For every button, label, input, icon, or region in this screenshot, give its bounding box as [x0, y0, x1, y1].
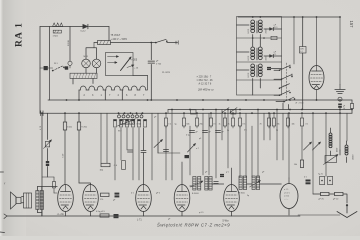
IF shield box — [237, 17, 282, 96]
IF box partition mid — [237, 61, 282, 63]
tube V7 IF amp — [309, 66, 324, 90]
fuse resistor block — [98, 41, 111, 45]
wire secondary tap leads — [105, 90, 122, 100]
svg-text:o·d 14: o·d 14 — [284, 195, 289, 197]
oscillator coil 2 — [345, 145, 348, 155]
dark cap diode T1 — [270, 28, 273, 31]
svg-text:17k: 17k — [100, 199, 103, 201]
dial lamp 1 — [82, 59, 91, 68]
IF can 3 winding b — [243, 176, 246, 190]
capacitor plates mid2 — [141, 150, 146, 152]
svg-text:0·1μ: 0·1μ — [186, 135, 190, 137]
svg-text:2μ: 2μ — [276, 130, 278, 132]
svg-text:Świętościć R8PW C7·Z mc2×9: Świętościć R8PW C7·Z mc2×9 — [157, 223, 230, 228]
wire dropper R-100 — [69, 27, 71, 62]
svg-text:10k: 10k — [294, 164, 297, 166]
band switch contact 5 — [283, 101, 285, 103]
svg-text:7,5V: 7,5V — [63, 153, 65, 158]
IF can 3 winding a — [239, 176, 242, 190]
IF can 1 tuning arrow — [191, 181, 204, 187]
pilot socket — [68, 61, 72, 65]
wire rail x47.5 — [47, 113, 49, 177]
wire V3 top lead — [143, 128, 145, 185]
svg-text:75 VOLT: 75 VOLT — [111, 34, 121, 37]
wire IF internal links — [237, 25, 261, 95]
svg-text:70k: 70k — [276, 124, 279, 126]
padder resistor 1 — [321, 192, 330, 195]
wire bus y109.5 right half — [168, 109, 352, 111]
svg-text:μF·10: μF·10 — [333, 199, 339, 201]
wire winding right lead up — [147, 76, 149, 91]
power transformer secondary winding — [79, 86, 147, 90]
svg-text:5k: 5k — [227, 130, 229, 132]
wire can stubs — [190, 184, 281, 186]
grid resistor horizontal — [101, 163, 110, 166]
wire coil connections — [331, 128, 347, 163]
svg-text:10W: 10W — [300, 48, 304, 50]
band switch gang link — [286, 63, 288, 101]
svg-text:Ø · 2·150: Ø · 2·150 — [296, 103, 304, 105]
ground symbol right — [335, 85, 345, 94]
IF can 4 tuning arrow — [250, 181, 261, 188]
wire to bus — [339, 108, 341, 113]
svg-text:5μ: 5μ — [175, 124, 177, 126]
dial lamp 2 — [92, 59, 101, 68]
wire switch drops to bus — [283, 103, 289, 110]
svg-text:B·102: B·102 — [248, 56, 250, 61]
svg-text:PL·W23: PL·W23 — [162, 72, 171, 74]
band switch contact 2 — [281, 78, 283, 80]
IF box partition 2 — [237, 79, 282, 81]
svg-text:RA 1: RA 1 — [15, 22, 25, 47]
AVC diode arrow 1 — [304, 142, 312, 150]
band switch contact 3 — [279, 87, 281, 89]
wire second rail — [49, 27, 51, 67]
svg-text:0,1: 0,1 — [300, 51, 302, 53]
IF can 4 winding b — [256, 176, 259, 190]
wire tube bottom leads — [65, 212, 67, 217]
svg-text:10000: 10000 — [353, 155, 355, 160]
rail x79 anode feed — [78, 113, 80, 122]
svg-text:70: 70 — [260, 124, 262, 126]
IF core dashes T2 — [256, 48, 258, 60]
feedback box with arrow — [325, 156, 337, 163]
grid leak resistor lower — [100, 214, 109, 217]
svg-text:0·1: 0·1 — [306, 124, 309, 126]
svg-text:10: 10 — [343, 108, 345, 110]
book gutter shading left edge — [0, 0, 26, 236]
svg-text:0·5μ μF·5: 0·5μ μF·5 — [96, 211, 106, 213]
svg-text:1k: 1k — [219, 124, 221, 126]
oscillator coil 1 — [329, 133, 332, 148]
cap to pot — [164, 149, 169, 151]
resistor 10k right rows — [165, 113, 167, 118]
svg-text:0·1: 0·1 — [304, 177, 307, 179]
svg-text:2k: 2k — [227, 124, 229, 126]
svg-text:17Ω1: 17Ω1 — [53, 36, 59, 38]
selector tap arrow 2 — [108, 62, 118, 64]
wire dropper rail x303 — [302, 17, 304, 110]
bus ground ticks — [4, 214, 7, 219]
wire cap stubs to box edge — [264, 29, 282, 69]
svg-text:1·k: 1·k — [168, 124, 171, 126]
svg-text:L·71: L·71 — [137, 220, 142, 222]
svg-text:μ·0·5: μ·0·5 — [199, 212, 203, 214]
svg-text:20·9: 20·9 — [274, 27, 278, 29]
wire V6 top lead — [288, 178, 290, 184]
wire speaker leads — [22, 197, 24, 203]
tube V4 — [174, 185, 190, 212]
svg-text:μ·5: μ·5 — [226, 172, 229, 174]
svg-text:2·1: 2·1 — [274, 54, 277, 56]
svg-text:B·3000: B·3000 — [239, 192, 245, 194]
wire HT rail y100 — [48, 99, 352, 101]
svg-text:0·1: 0·1 — [131, 193, 134, 195]
capacitor C-6 — [122, 161, 126, 170]
wire lamp bottoms — [86, 68, 97, 74]
resistor row under bus — [114, 120, 117, 128]
svg-text:2·700: 2·700 — [156, 64, 162, 66]
IF transformer T2 coil b — [258, 47, 262, 60]
IF transformer T3 coil b — [258, 64, 262, 77]
wire x79 to V2 grid — [79, 183, 91, 185]
electrolytic caps under bus — [190, 130, 195, 132]
tube V1 output L-21 — [58, 185, 74, 212]
svg-text:5μ: 5μ — [247, 195, 249, 197]
wire left rail lower — [41, 113, 43, 216]
cap at V5 grid — [214, 181, 219, 183]
switch lever on bus 2 — [230, 112, 231, 113]
capacitor dark — [46, 161, 49, 163]
svg-text:B·20000: B·20000 — [192, 193, 199, 195]
capacitor plates mid1 — [128, 149, 133, 151]
IF T3 trimmer cap — [267, 67, 271, 68]
wire V5 top lead — [231, 168, 233, 185]
svg-text:B·103: B·103 — [248, 73, 250, 78]
svg-text:V·250: V·250 — [81, 127, 87, 129]
svg-text:U=12: U=12 — [81, 31, 87, 33]
coupling resistor horizontal V1-V2 — [101, 193, 110, 196]
svg-text:0·5: 0·5 — [244, 130, 247, 132]
svg-text:25k: 25k — [199, 124, 202, 126]
IF transformer T1 coil a — [251, 20, 255, 33]
wire stub y177 — [42, 176, 54, 178]
wire heater bus y113.2 — [40, 112, 352, 114]
svg-text:R-100: R-100 — [68, 39, 70, 46]
wire left rail — [39, 27, 41, 114]
resistor 10W 0.1 — [300, 47, 307, 54]
oscillator trimmer 2 — [328, 177, 333, 185]
IF transformer T3 coil a — [251, 64, 255, 77]
svg-text:+ 205: + 205 — [131, 60, 138, 62]
IF can 2 winding a — [205, 177, 208, 191]
antenna symbol — [337, 206, 357, 217]
selector tap arrow 1 — [108, 56, 119, 58]
wire bus to antenna — [298, 214, 340, 216]
band switch contact 1 — [279, 69, 281, 71]
svg-text:μF·5: μF·5 — [156, 193, 160, 195]
wire winding left lead — [78, 90, 80, 100]
mains plug connector — [44, 66, 48, 70]
left margin tick upper — [0, 171, 4, 173]
svg-text:+ 240 V ∼ 50Hz: + 240 V ∼ 50Hz — [111, 39, 128, 41]
wire lamp feed — [93, 43, 95, 48]
selector main arrow +205 — [121, 57, 132, 71]
rail x65 screen feed — [64, 113, 66, 122]
transformer primary winding box — [70, 73, 97, 78]
svg-text:—·—: —·— — [284, 199, 288, 201]
svg-text:B·101: B·101 — [248, 29, 250, 34]
bus left terminal — [40, 111, 42, 116]
svg-text:μF·25: μF·25 — [319, 199, 325, 201]
trimmer capacitor — [45, 142, 49, 147]
capacitor C mains — [148, 60, 155, 62]
speaker — [11, 192, 17, 209]
wire to fuse block — [108, 27, 110, 41]
wire lamp top link — [86, 48, 97, 59]
cathode resistor V1 — [53, 177, 55, 182]
wire antenna link — [313, 194, 347, 203]
tube V6 with data — [280, 184, 298, 209]
switch lever on bus 1 — [222, 112, 223, 113]
wire selector feed — [150, 43, 152, 101]
svg-text:a·b 2·5: a·b 2·5 — [284, 192, 290, 194]
svg-text:157: 157 — [349, 21, 354, 29]
resistor screen — [63, 122, 66, 130]
wire selector to winding — [133, 75, 148, 77]
IF can 1 winding b — [198, 177, 201, 191]
output transformer winding — [36, 191, 39, 210]
wire transformer box leads — [73, 79, 93, 85]
switch mains on-off — [155, 42, 157, 44]
wire x340 drop — [339, 17, 341, 85]
volume pot arrow — [154, 140, 163, 148]
junction box on bus 1 — [191, 110, 197, 114]
voltage selector box — [106, 53, 134, 76]
mains switch fuse cluster on bus — [118, 113, 120, 115]
svg-text:1kΩ: 1kΩ — [100, 170, 104, 172]
svg-text:⊥L·21ℓ: ⊥L·21ℓ — [57, 213, 65, 216]
capacitor across switch — [65, 66, 68, 69]
junction box on bus 2 — [231, 110, 236, 114]
svg-text:A·12·32 Г 6: A·12·32 Г 6 — [199, 83, 212, 86]
wire bus tie — [167, 110, 169, 114]
switch lever on bus — [118, 119, 136, 126]
wire to mains cord — [167, 42, 178, 44]
wire x294 drop — [293, 17, 295, 64]
svg-text:10k: 10k — [292, 124, 295, 126]
wire AVC horizontal — [158, 152, 180, 154]
svg-text:7μ 25: 7μ 25 — [318, 174, 323, 176]
wire corner into HT rail — [49, 66, 51, 100]
svg-text:W·2: W·2 — [118, 131, 121, 133]
coupling cap dark V2 — [115, 193, 120, 195]
wire OT to V1 anode — [42, 186, 57, 188]
wire mains top rail — [40, 26, 109, 28]
band switch contact 4 — [279, 94, 281, 96]
output transformer frame — [24, 193, 32, 208]
right edge component — [351, 100, 353, 113]
IF box partition 1 — [237, 37, 282, 39]
wire x316 drop to V7 — [316, 17, 318, 66]
IF can 4 winding a — [252, 176, 255, 190]
tube V2 — [83, 185, 99, 212]
wire switch feeds — [274, 65, 292, 102]
resistor V-250 — [77, 122, 80, 130]
oscillator trimmer 1 — [320, 177, 325, 185]
antenna terminal — [346, 204, 348, 206]
decoupling terminal — [338, 97, 342, 101]
IF can 2 winding b — [209, 177, 212, 191]
svg-text:o·7: o·7 — [196, 148, 199, 150]
IF core dashes T3 — [256, 65, 258, 77]
IF T1 resistor — [271, 36, 277, 39]
IF can 1 winding a — [193, 177, 196, 191]
wire bottom ground bus — [7, 215, 300, 217]
svg-text:2Μ·400 м·ш: 2Μ·400 м·ш — [197, 88, 214, 92]
tube V3 L-71 — [136, 185, 152, 212]
wire HT top rail — [238, 16, 340, 18]
IF core dashes T1 — [256, 21, 258, 33]
wire vertical drops mid — [100, 113, 102, 163]
IF transformer T1 coil b — [258, 20, 262, 33]
padder resistor 2 — [335, 192, 344, 195]
switch W1 mains — [52, 70, 54, 72]
wire fuse to switch — [94, 42, 155, 44]
AVC diode arrow 2 — [313, 142, 321, 150]
left margin tick lower — [0, 231, 5, 234]
resistor R-101 triangles — [53, 23, 63, 26]
selector small arrow — [127, 65, 134, 68]
wire V4 top lead — [181, 162, 183, 185]
wire V7 cathode lead — [316, 90, 318, 101]
wire OT primary leads — [37, 187, 42, 217]
svg-text:ø·1·5: ø·1·5 — [284, 189, 288, 191]
svg-text:50k: 50k — [186, 124, 189, 126]
cap dark right — [338, 104, 342, 106]
cap dark above can2 — [220, 174, 224, 175]
tube V5 — [224, 185, 240, 212]
svg-text:4000: 4000 — [265, 57, 267, 61]
detector diode arrows — [188, 144, 196, 153]
cap dark at V6 — [306, 180, 311, 182]
diode U-102 — [83, 24, 88, 28]
resistor 10k vertical — [300, 160, 303, 168]
dark cap diode T2 — [270, 55, 273, 58]
IF transformer T2 coil a — [251, 47, 255, 60]
cap dark lower — [114, 214, 119, 216]
svg-text:4000: 4000 — [337, 148, 339, 152]
